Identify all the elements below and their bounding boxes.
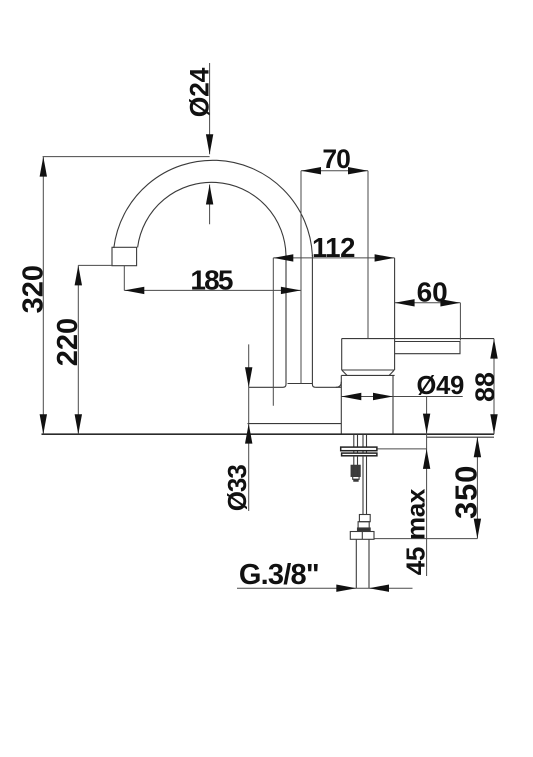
arrow dim33 top: [245, 367, 252, 387]
body left edge: [340, 375, 342, 433]
dim 185 extension from nozzle: [123, 266, 125, 290]
arrow 88 bottom: [490, 414, 497, 434]
dim 88 line: [493, 339, 495, 435]
base counter line: [42, 433, 495, 435]
counter bottom short line: [427, 436, 494, 438]
svg-text:350: 350: [448, 465, 483, 519]
arrow dim49 left: [341, 393, 361, 400]
spout tube right wall: [312, 255, 315, 387]
arrow dim49 right: [373, 393, 393, 400]
dim 220 line: [77, 265, 79, 434]
handle block top + 88 extension: [342, 338, 494, 340]
arrow 70 left: [301, 167, 321, 174]
dim 185 line: [124, 289, 301, 291]
arrow 70 right: [348, 167, 368, 174]
arrow 45max bottom: [423, 449, 430, 469]
arrow 60 left: [395, 299, 415, 306]
dim 112 line: [273, 257, 394, 259]
arrow G38 right: [369, 585, 389, 592]
45max flange extension: [378, 448, 427, 450]
arrow 350 bottom: [474, 519, 481, 539]
stud nut step: [353, 476, 359, 479]
arrow 112 left: [273, 254, 293, 261]
body right edge: [392, 375, 394, 433]
svg-text:Ø49: Ø49: [417, 372, 465, 400]
coupling B: [358, 522, 369, 528]
dim 45max line: [426, 397, 428, 577]
svg-text:Ø33: Ø33: [222, 465, 252, 512]
spout inner arc: [138, 182, 286, 256]
arrow dim24 bottom: [206, 185, 213, 205]
svg-text:Ø24: Ø24: [184, 67, 214, 117]
dim Ø24 line: [209, 63, 211, 224]
shank verticals: [353, 435, 355, 456]
svg-text:70: 70: [322, 144, 350, 174]
stud below flange: [353, 456, 355, 466]
compression nut: [350, 532, 374, 540]
dim 220 extension: [78, 264, 112, 266]
collar right bevel: [389, 370, 394, 375]
dim 60 line: [395, 302, 461, 304]
top extension line: [43, 156, 210, 158]
svg-text:45 max: 45 max: [401, 488, 431, 575]
arrow 185 right: [281, 287, 301, 294]
collar left bevel: [342, 370, 347, 375]
handle block left edge: [341, 339, 343, 371]
arrow G38 left: [336, 585, 356, 592]
stud tip: [354, 479, 358, 481]
arrow 60 right: [440, 299, 460, 306]
supply tube: [355, 539, 357, 588]
svg-text:220: 220: [52, 318, 84, 366]
112 left extension: [272, 258, 274, 406]
dim 70 line: [301, 170, 368, 172]
collar bottom: [341, 374, 394, 376]
spout outer arc: [114, 160, 313, 256]
stud nut: [351, 465, 360, 476]
spout tube inner wall: [283, 255, 286, 387]
boss top shoulder left: [249, 386, 283, 388]
arrow 112 right: [375, 254, 395, 261]
flange bar lower: [342, 453, 377, 456]
lever arm: [395, 342, 460, 354]
svg-text:60: 60: [417, 276, 448, 307]
arrow 320 bottom: [40, 414, 47, 434]
boss bottom: [248, 423, 342, 425]
coupling A: [359, 515, 370, 522]
arrow 320 top: [40, 157, 47, 177]
spout seam line: [288, 383, 313, 385]
arrow 220 top: [75, 265, 82, 285]
arrow 220 bottom: [75, 414, 82, 434]
dim Ø33 line: [248, 344, 250, 511]
collar top: [342, 369, 395, 371]
svg-text:320: 320: [17, 265, 49, 313]
arrow 45max top: [423, 414, 430, 434]
body fillet to shoulder: [336, 382, 342, 388]
svg-text:185: 185: [190, 265, 233, 296]
supply pipe: [362, 456, 364, 515]
flange bar upper: [341, 447, 377, 451]
arrow 88 top: [490, 339, 497, 359]
arrow dim24 top: [206, 134, 213, 154]
svg-text:G.3/8": G.3/8": [239, 559, 319, 591]
arrow 185 left: [124, 287, 144, 294]
boss top shoulder right: [315, 386, 341, 388]
nut facet line: [361, 532, 363, 540]
70 right extension: [367, 171, 369, 339]
350 bottom extension: [375, 538, 478, 540]
axis extension: [300, 171, 302, 384]
dark band: [358, 528, 371, 531]
dim 350 line: [476, 437, 478, 538]
arrow dim33 bottom: [245, 424, 252, 444]
60 right extension: [459, 303, 461, 341]
svg-text:112: 112: [312, 232, 355, 263]
nozzle aerator: [112, 247, 137, 265]
dim Ø49 line: [341, 396, 462, 398]
svg-text:88: 88: [470, 372, 500, 402]
handle block right edge / 112 extension: [394, 258, 396, 370]
arrow 350 top: [474, 437, 481, 457]
dim 320 line: [42, 157, 44, 435]
dim G3/8 line: [237, 587, 413, 589]
